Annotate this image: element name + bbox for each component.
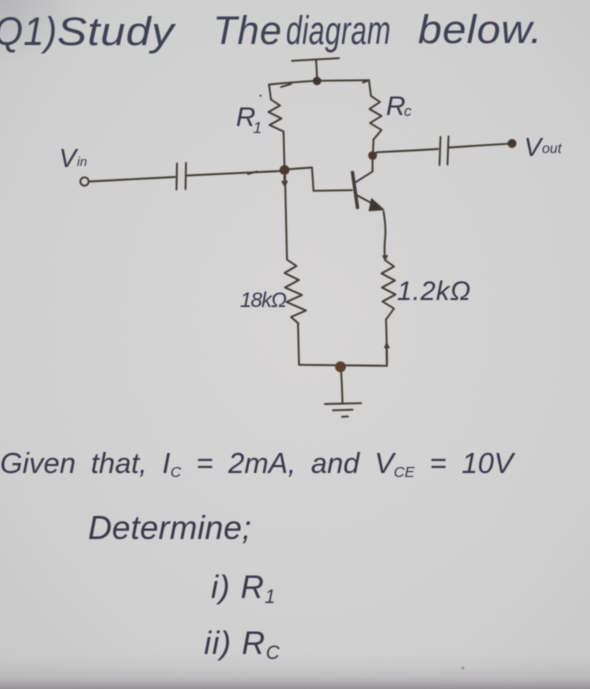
node A supply junction (313, 77, 321, 85)
label 18k ohm (240, 289, 287, 312)
terminal Vout (508, 140, 516, 148)
wire Vin to C1 (89, 177, 175, 182)
wire emitter to RE (383, 212, 387, 260)
capacitor C1 (177, 163, 187, 190)
stray speck (462, 667, 465, 670)
given text (0, 448, 516, 664)
wire bottom (299, 344, 389, 366)
ground (341, 370, 343, 403)
wire R1 to base node (284, 132, 285, 169)
label Vin (59, 143, 87, 173)
capacitor C2 (440, 137, 449, 166)
label 1.2k ohm (397, 276, 471, 306)
wire collector to C2 (373, 149, 438, 156)
resistor R2 18k (285, 175, 287, 260)
resistor Rc (369, 81, 371, 97)
title (0, 7, 543, 54)
wire base node to transistor base (283, 168, 353, 191)
node B base junction (280, 165, 290, 175)
wire C1 to base node (187, 171, 281, 176)
wire C2 to Vout (450, 144, 508, 148)
transistor Q1 (353, 173, 358, 208)
label Rc (386, 91, 412, 121)
label R1 (236, 102, 262, 137)
resistor R1 (269, 100, 284, 132)
stray pen dot (259, 95, 261, 97)
node C collector junction (368, 151, 377, 160)
node D ground junction (335, 361, 346, 372)
terminal Vin (80, 177, 88, 185)
resistor RE 1.2k (382, 260, 396, 320)
Vcc rail symbol (292, 58, 339, 80)
wire top rail (269, 80, 369, 87)
wire rail to R1 (269, 85, 271, 100)
label Vout (524, 132, 563, 162)
